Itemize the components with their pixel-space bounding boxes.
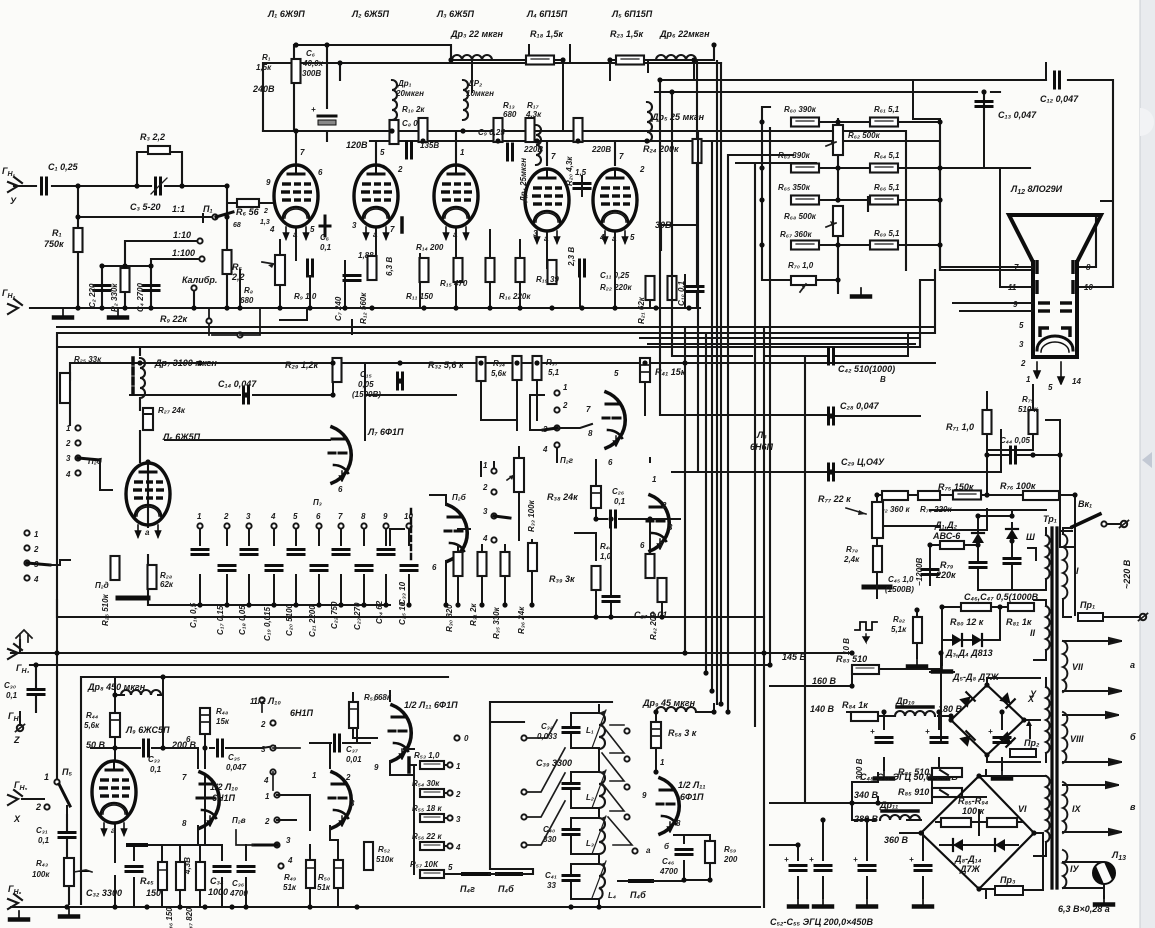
svg-text:5: 5 xyxy=(1048,383,1053,392)
svg-text:100к: 100к xyxy=(32,870,50,879)
svg-text:С₁₅: С₁₅ xyxy=(360,370,372,379)
resistor R28 62k xyxy=(148,565,174,589)
svg-text:Др₈ 450 мкгн: Др₈ 450 мкгн xyxy=(87,682,146,692)
svg-text:2: 2 xyxy=(65,439,71,448)
svg-text:10: 10 xyxy=(1084,283,1093,292)
wire power section rows xyxy=(770,645,1002,898)
svg-text:С₄₆: С₄₆ xyxy=(662,857,674,866)
svg-text:360 В: 360 В xyxy=(884,835,909,845)
svg-text:Л₅ 6П15П: Л₅ 6П15П xyxy=(611,9,653,19)
capacitor C27 0,01 xyxy=(603,597,667,621)
resistor R34 5,6k xyxy=(491,356,522,380)
choke Dr8 450mkgn xyxy=(87,682,161,695)
svg-text:5: 5 xyxy=(614,369,619,378)
cathode ground bar L9 xyxy=(128,843,146,847)
svg-text:R₆₆ 5,1: R₆₆ 5,1 xyxy=(874,183,900,192)
svg-text:5,6к: 5,6к xyxy=(491,369,507,378)
svg-text:680: 680 xyxy=(503,110,517,119)
tube L8 half 1 xyxy=(586,369,625,467)
resistor R40 1,0 xyxy=(600,542,655,578)
svg-text:Др₆ 22мкгн: Др₆ 22мкгн xyxy=(659,29,710,39)
svg-text:R₉ 22к: R₉ 22к xyxy=(160,314,188,324)
svg-text:2: 2 xyxy=(562,401,568,410)
wire mid box internals xyxy=(70,347,333,605)
resistor R39 3k xyxy=(549,566,601,590)
svg-text:0,1: 0,1 xyxy=(614,497,626,506)
svg-text:120В: 120В xyxy=(346,140,368,150)
svg-text:200: 200 xyxy=(723,855,738,864)
svg-text:Л₂ 6Ж5П: Л₂ 6Ж5П xyxy=(351,9,389,19)
resistor R48 15k xyxy=(200,707,230,734)
terminal Gn5 xyxy=(8,780,44,824)
resistor R15 470 xyxy=(440,258,495,288)
wire crt feed lines xyxy=(913,63,1113,267)
capacitor C7 240 xyxy=(334,251,374,321)
svg-text:С₂₃ 270: С₂₃ 270 xyxy=(353,602,362,630)
svg-text:R₆₂ 500к: R₆₂ 500к xyxy=(848,131,881,140)
svg-text:240В: 240В xyxy=(252,84,275,94)
svg-text:5: 5 xyxy=(380,148,385,157)
svg-text:R₁: R₁ xyxy=(262,53,271,62)
svg-text:2,3 В: 2,3 В xyxy=(567,247,576,267)
svg-text:П₂г: П₂г xyxy=(560,456,574,465)
svg-text:L₁: L₁ xyxy=(586,726,594,735)
svg-text:С₄₂ 510(1000): С₄₂ 510(1000) xyxy=(838,364,895,374)
svg-text:Ш: Ш xyxy=(1026,532,1035,542)
svg-text:0,05: 0,05 xyxy=(358,380,374,389)
svg-text:2: 2 xyxy=(455,790,461,799)
resistor R59 200 xyxy=(705,841,738,864)
svg-text:2,2: 2,2 xyxy=(231,272,245,282)
svg-text:VII: VII xyxy=(1072,662,1084,672)
svg-text:1/2 Л₁₀: 1/2 Л₁₀ xyxy=(253,696,281,706)
resistor R75 510k xyxy=(987,385,1039,450)
ground ladder xyxy=(852,288,870,297)
svg-text:5,1: 5,1 xyxy=(548,368,560,377)
resistor ladder R54 xyxy=(412,779,461,799)
svg-text:2: 2 xyxy=(263,208,268,215)
svg-text:Др₄ 25мкгн: Др₄ 25мкгн xyxy=(519,158,528,203)
electrolytic cap 2 xyxy=(925,727,948,779)
winding X xyxy=(1030,678,1050,762)
svg-text:2: 2 xyxy=(35,802,41,812)
switch Vk1 xyxy=(1043,499,1129,531)
svg-text:П₁: П₁ xyxy=(203,204,213,214)
svg-text:1,3: 1,3 xyxy=(260,219,270,226)
electrolytic cap 3 xyxy=(988,727,1011,779)
svg-text:3: 3 xyxy=(66,454,71,463)
svg-text:1,0: 1,0 xyxy=(600,552,612,561)
tube L7 half2 xyxy=(432,493,467,572)
capacitor C33 10 dashed xyxy=(398,509,411,605)
svg-text:R₂₆ 510к: R₂₆ 510к xyxy=(101,593,110,626)
capacitor C13 0,047 xyxy=(976,102,1037,121)
svg-text:R₄₉: R₄₉ xyxy=(284,873,296,882)
resistor R41 15k xyxy=(640,358,686,382)
svg-text:7: 7 xyxy=(182,773,187,782)
svg-text:5: 5 xyxy=(1019,321,1024,330)
svg-text:4: 4 xyxy=(263,776,269,785)
svg-text:2,4к: 2,4к xyxy=(843,555,860,564)
coil L1 xyxy=(586,710,606,749)
svg-text:R₆₅ 350к: R₆₅ 350к xyxy=(778,183,811,192)
svg-text:1:100: 1:100 xyxy=(172,248,195,258)
capacitor bank C16-C25 xyxy=(189,512,417,641)
svg-text:R₈₀ 12 к: R₈₀ 12 к xyxy=(950,617,984,627)
svg-text:3: 3 xyxy=(352,221,357,230)
svg-text:У: У xyxy=(10,196,17,206)
svg-text:С₃₃ 10: С₃₃ 10 xyxy=(398,581,407,605)
potentiometer R77 xyxy=(872,502,883,546)
svg-text:145 В: 145 В xyxy=(782,652,807,662)
svg-text:6: 6 xyxy=(608,458,613,467)
svg-text:5: 5 xyxy=(630,233,635,242)
svg-text:1: 1 xyxy=(34,530,39,539)
svg-text:R₂ 330к: R₂ 330к xyxy=(110,283,119,312)
switch P2b contacts xyxy=(65,424,112,490)
svg-text:1: 1 xyxy=(563,383,568,392)
svg-text:1: 1 xyxy=(265,792,270,801)
svg-text:5: 5 xyxy=(293,512,298,521)
resistor R9 22k xyxy=(160,308,260,338)
svg-text:R₄₇ 820: R₄₇ 820 xyxy=(185,907,194,928)
terminal Gn1 xyxy=(2,166,22,206)
svg-text:С₁₄ 0,047: С₁₄ 0,047 xyxy=(218,379,257,389)
switch P2b2 contacts xyxy=(482,461,510,543)
resistor R23 1,5k xyxy=(610,29,644,65)
resistor R52 510k xyxy=(364,842,394,870)
svg-text:7: 7 xyxy=(619,152,624,161)
transformer core xyxy=(1050,528,1053,888)
capacitor C35 0,047 xyxy=(186,735,275,772)
svg-text:С₃₀: С₃₀ xyxy=(4,681,16,690)
svg-text:С₁₃ 0,047: С₁₃ 0,047 xyxy=(998,110,1037,120)
svg-text:R₂₅ 33к: R₂₅ 33к xyxy=(74,355,102,364)
capacitor C6 electrolytic xyxy=(302,49,336,125)
resistor R32 5,6k xyxy=(428,357,486,381)
svg-text:R₃₅ 330к: R₃₅ 330к xyxy=(492,606,501,639)
wire R row xyxy=(877,495,1075,615)
tube L7 half triode xyxy=(329,427,404,494)
svg-text:С₁ 0,25: С₁ 0,25 xyxy=(48,162,79,172)
svg-text:R₃₇: R₃₇ xyxy=(546,358,559,367)
svg-text:6Н1П: 6Н1П xyxy=(290,708,314,718)
choke Dr2 10mkgn xyxy=(463,79,494,120)
wire L10-2 connections xyxy=(198,743,330,845)
wire L9 stage xyxy=(91,677,205,907)
capacitor C32 3300 xyxy=(86,845,142,907)
svg-text:R₈: R₈ xyxy=(244,286,253,295)
capacitor C11 0,25 xyxy=(580,260,633,292)
tube L9 xyxy=(92,761,136,835)
wire vertical bundle xyxy=(660,61,805,907)
resistor R38 24k xyxy=(547,486,601,508)
switch P4g wiper xyxy=(460,874,489,894)
svg-text:7: 7 xyxy=(586,405,591,414)
svg-text:4: 4 xyxy=(482,534,488,543)
svg-text:R₇₆ 100к: R₇₆ 100к xyxy=(1000,481,1036,491)
svg-text:+: + xyxy=(784,855,789,864)
svg-text:4: 4 xyxy=(33,575,39,584)
svg-text:5: 5 xyxy=(310,225,315,234)
switch P2a column xyxy=(250,697,300,790)
potentiometer R43 100k xyxy=(32,858,92,886)
svg-text:С₃₆: С₃₆ xyxy=(232,879,244,888)
svg-text:R₂₃ 1,5к: R₂₃ 1,5к xyxy=(610,29,643,39)
svg-text:510к: 510к xyxy=(376,855,394,864)
svg-text:R₄₅: R₄₅ xyxy=(140,876,154,886)
svg-text:R₃₂ 5,6 к: R₃₂ 5,6 к xyxy=(428,360,464,370)
wire mid horizontals xyxy=(81,358,935,605)
tube L8 half 2 xyxy=(640,475,673,551)
svg-text:3: 3 xyxy=(286,836,291,845)
svg-text:2: 2 xyxy=(397,165,403,174)
tube L10 half1 xyxy=(182,772,219,875)
svg-text:Д₈-Д₁₄: Д₈-Д₁₄ xyxy=(954,854,982,864)
svg-text:8: 8 xyxy=(676,819,681,828)
capacitor C29 0,047 xyxy=(829,457,886,480)
svg-text:R₇₉: R₇₉ xyxy=(940,560,954,570)
svg-text:1: 1 xyxy=(312,771,317,780)
wire top input line xyxy=(14,152,274,308)
svg-text:6: 6 xyxy=(338,485,343,494)
capacitor C2 220 xyxy=(88,283,110,308)
svg-text:R₁₇: R₁₇ xyxy=(527,101,540,110)
resistor R35 330k xyxy=(492,545,510,639)
svg-text:R₇₈: R₇₈ xyxy=(846,545,858,554)
resistor R75b 150k xyxy=(938,482,981,500)
wire choke feeders xyxy=(472,45,694,131)
resistor R30 820 xyxy=(445,545,463,632)
svg-text:3: 3 xyxy=(246,512,251,521)
fuse Pr2 xyxy=(1010,738,1040,757)
resistor R19 39 xyxy=(536,260,559,284)
label 1/2 L10 xyxy=(210,782,238,803)
svg-text:40,0х: 40,0х xyxy=(302,59,324,68)
svg-text:R₇₅ 150к: R₇₅ 150к xyxy=(938,482,974,492)
capacitor C38 xyxy=(537,705,599,772)
svg-text:4: 4 xyxy=(599,233,605,242)
ground bottom left xyxy=(10,911,28,920)
capacitor C1 xyxy=(42,162,79,194)
svg-text:8: 8 xyxy=(1086,263,1091,272)
svg-text:С₁₆ 0,5: С₁₆ 0,5 xyxy=(189,602,198,628)
svg-text:С₄₅ 1,0: С₄₅ 1,0 xyxy=(888,575,914,584)
wire top bus y45 xyxy=(294,45,714,141)
svg-text:Л₈: Л₈ xyxy=(756,430,767,440)
svg-text:Калибр.: Калибр. xyxy=(182,275,217,285)
resistor R67 360k xyxy=(780,230,819,250)
wire L7 half2 area xyxy=(390,495,470,605)
svg-text:9: 9 xyxy=(383,512,388,521)
svg-text:9: 9 xyxy=(1013,300,1018,309)
ground L6 xyxy=(118,596,148,601)
svg-text:6: 6 xyxy=(318,168,323,177)
svg-text:1: 1 xyxy=(483,461,488,470)
svg-text:Д₃,Д₄ Д813: Д₃,Д₄ Д813 xyxy=(945,648,993,658)
svg-text:С₂₀ 5100: С₂₀ 5100 xyxy=(285,603,294,636)
resistor R16 220k xyxy=(499,258,531,301)
svg-text:П₂в: П₂в xyxy=(232,816,246,825)
svg-text:IX: IX xyxy=(1072,804,1082,814)
svg-text:R₃₄: R₃₄ xyxy=(493,359,505,368)
svg-text:С₂₉ Ц,О4У: С₂₉ Ц,О4У xyxy=(841,457,885,467)
resistor R86 910 xyxy=(898,767,962,777)
resistor R61 5,1 xyxy=(870,105,900,127)
resistor R66 5,1 xyxy=(870,183,900,205)
resistor R13 680 xyxy=(494,101,517,142)
svg-text:R₄₃: R₄₃ xyxy=(36,859,48,868)
svg-text:R₈₆ 510: R₈₆ 510 xyxy=(898,767,929,777)
svg-text:R₁₄ 200: R₁₄ 200 xyxy=(416,243,444,252)
svg-text:9: 9 xyxy=(374,763,379,772)
svg-text:R₃₀ 820: R₃₀ 820 xyxy=(445,604,454,632)
switch P4b wiper xyxy=(489,874,533,894)
svg-text:Л₇ 6Ф1П: Л₇ 6Ф1П xyxy=(367,427,404,437)
wire ground bus top xyxy=(30,307,700,309)
choke Dr5 25mkgn xyxy=(647,102,705,142)
capacitor C3 trimmer xyxy=(130,178,167,212)
svg-text:С₁₀ 0,1: С₁₀ 0,1 xyxy=(677,280,686,306)
resistor R50 51k xyxy=(317,832,343,907)
label 1/2 L10 top xyxy=(253,696,314,718)
svg-text:+: + xyxy=(988,727,993,736)
wire calibr loop xyxy=(203,214,352,334)
ground at input xyxy=(54,309,72,318)
svg-text:R₁₁ 150: R₁₁ 150 xyxy=(406,292,434,301)
svg-text:8: 8 xyxy=(588,429,593,438)
svg-text:R₄₀: R₄₀ xyxy=(600,542,612,551)
svg-text:П₄г: П₄г xyxy=(460,884,475,894)
svg-text:4: 4 xyxy=(542,445,548,454)
svg-text:VI: VI xyxy=(1018,804,1027,814)
resistor R3 xyxy=(140,132,170,154)
svg-text:С₃₇: С₃₇ xyxy=(346,745,359,754)
coil L2 xyxy=(586,770,606,808)
potentiometer R33 100k xyxy=(507,447,536,540)
capacitor C36 4700 xyxy=(229,845,254,907)
resistor R46 150 xyxy=(165,852,185,928)
coil L3 xyxy=(586,816,606,854)
svg-text:Пр₂: Пр₂ xyxy=(1024,738,1040,748)
svg-text:5,1к: 5,1к xyxy=(891,625,907,634)
capacitor C46 4700 xyxy=(659,835,710,880)
svg-text:Тр₁: Тр₁ xyxy=(1043,514,1057,524)
svg-text:С₂ 220: С₂ 220 xyxy=(88,283,97,308)
choke Dr11 xyxy=(879,800,920,845)
capacitor C6k 0,1 xyxy=(308,233,332,276)
resistor R51 68k xyxy=(349,693,392,738)
svg-text:П₃: П₃ xyxy=(313,498,322,507)
svg-text:8: 8 xyxy=(182,819,187,828)
svg-text:R₃₉ 3к: R₃₉ 3к xyxy=(549,574,575,584)
svg-text:3: 3 xyxy=(456,815,461,824)
svg-text:R₈₅-R₉₄: R₈₅-R₉₄ xyxy=(958,796,989,806)
fuse Pr3 xyxy=(979,833,1043,895)
svg-text:R₇₀ 1,0: R₇₀ 1,0 xyxy=(788,261,814,270)
lamp L13 xyxy=(1063,850,1126,905)
capacitor C9 0,25 xyxy=(478,128,513,160)
svg-text:6Н1П: 6Н1П xyxy=(212,793,236,803)
svg-text:R₂₀ 4,3к: R₂₀ 4,3к xyxy=(565,156,574,186)
svg-text:0,1: 0,1 xyxy=(6,691,18,700)
svg-text:7: 7 xyxy=(338,512,343,521)
svg-text:Л₃ 6Ж5П: Л₃ 6Ж5П xyxy=(436,9,475,19)
svg-text:Вк₁: Вк₁ xyxy=(1078,499,1092,509)
svg-text:150: 150 xyxy=(146,888,161,898)
svg-text:Z: Z xyxy=(13,735,20,745)
svg-text:6Ф1П: 6Ф1П xyxy=(680,792,704,802)
choke Dr7 3100mkgn xyxy=(133,358,217,398)
svg-text:+: + xyxy=(870,727,875,736)
svg-text:(1500В): (1500В) xyxy=(352,390,381,399)
LC box xyxy=(490,702,612,874)
capacitor C34 1000 xyxy=(200,845,230,907)
terminal Gn2 xyxy=(2,288,22,314)
svg-text:1/2 Л₁₁: 1/2 Л₁₁ xyxy=(678,780,706,790)
grey nav arrow xyxy=(1142,452,1152,468)
svg-text:9: 9 xyxy=(642,791,647,800)
label C43 xyxy=(885,575,914,594)
resistor R42 200 xyxy=(649,578,667,640)
svg-text:R₈₂: R₈₂ xyxy=(893,615,905,624)
small res xyxy=(918,491,952,514)
svg-text:10мкгн: 10мкгн xyxy=(466,89,494,98)
wire tube cathode drops xyxy=(240,228,685,308)
capacitor Cet 0,1 xyxy=(677,280,703,306)
label L8 6N6P xyxy=(750,430,774,452)
svg-text:2: 2 xyxy=(264,817,270,826)
svg-text:680: 680 xyxy=(240,296,254,305)
potentiometer R68 500k xyxy=(784,206,843,236)
svg-text:С₁₁ 0,25: С₁₁ 0,25 xyxy=(600,271,630,280)
svg-text:100 к: 100 к xyxy=(962,806,985,816)
fuse Pr1 xyxy=(1078,600,1148,621)
svg-text:П₂б: П₂б xyxy=(452,493,467,502)
switch P2d contacts xyxy=(24,530,108,590)
wire mid box outline xyxy=(57,270,935,617)
svg-text:R₁: R₁ xyxy=(52,228,62,238)
wire right ladder rails xyxy=(762,107,1030,293)
bottom electrolytic 2 xyxy=(809,820,832,907)
svg-text:R₂₉ 1,2к: R₂₉ 1,2к xyxy=(285,360,318,370)
resistor R27 24k xyxy=(143,406,186,430)
choke Dr10 xyxy=(895,696,963,716)
resistor R6 56 xyxy=(233,199,270,229)
svg-text:С₁₂ 0,047: С₁₂ 0,047 xyxy=(1040,94,1079,104)
tube L10 half2 xyxy=(312,771,355,828)
potentiometer R70 1,0 xyxy=(788,261,816,292)
right page edge grey strip xyxy=(1140,0,1155,928)
svg-text:1: 1 xyxy=(197,512,202,521)
switch circles right col xyxy=(602,725,638,854)
resistor R60 390k xyxy=(784,105,819,127)
resistor R58 3k xyxy=(651,712,697,772)
svg-text:6,3 В×0,28 а: 6,3 В×0,28 а xyxy=(1058,904,1110,914)
svg-text:С₂₁ 2200: С₂₁ 2200 xyxy=(308,605,317,637)
capacitor C8 0,1 xyxy=(402,119,425,158)
svg-text:2: 2 xyxy=(639,165,645,174)
svg-text:2: 2 xyxy=(661,501,667,510)
svg-text:П₅: П₅ xyxy=(62,767,72,777)
svg-text:R₅: R₅ xyxy=(232,262,242,272)
svg-text:IУ: IУ xyxy=(1070,864,1080,874)
svg-text:1/2 Л₁₁ 6Ф1П: 1/2 Л₁₁ 6Ф1П xyxy=(404,700,458,710)
resistor R31 2k xyxy=(469,545,487,626)
svg-text:0,1: 0,1 xyxy=(150,765,162,774)
svg-text:220В: 220В xyxy=(591,145,611,154)
svg-text:300В: 300В xyxy=(302,69,321,78)
